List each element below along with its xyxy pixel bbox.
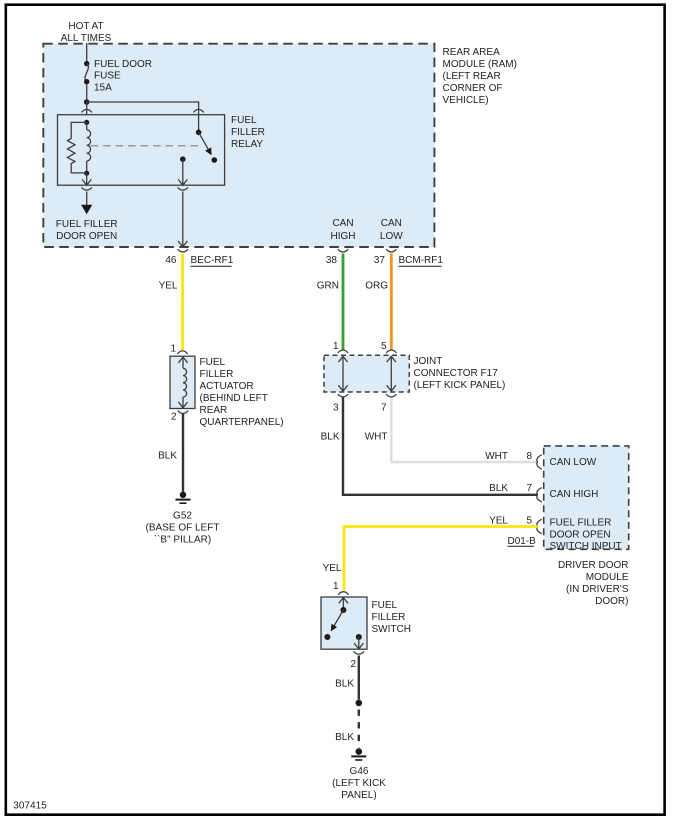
arrow into relay switch pin <box>194 115 203 120</box>
svg-text:ORG: ORG <box>365 281 388 292</box>
connector arc joint pin 7 <box>386 394 396 397</box>
svg-text:5: 5 <box>381 341 387 352</box>
svg-text:FUEL FILLER: FUEL FILLER <box>550 517 612 528</box>
svg-text:YEL: YEL <box>489 515 508 526</box>
svg-text:CAN: CAN <box>381 218 402 229</box>
junction splice <box>84 99 90 105</box>
svg-text:MODULE (RAM): MODULE (RAM) <box>443 59 517 70</box>
svg-text:FILLER: FILLER <box>372 612 406 623</box>
wire ORG CAN LOW to joint connector pin 5 <box>390 254 393 351</box>
connector brace DDM pin 5 <box>537 519 542 533</box>
svg-text:D01-B: D01-B <box>508 536 537 547</box>
ground G52 <box>176 492 191 504</box>
wire BLK joint pin 3 to DDM pin 7 <box>343 398 538 495</box>
wire junction to relay switch pin <box>87 102 199 115</box>
svg-text:ACTUATOR: ACTUATOR <box>200 381 254 392</box>
label: FUEL FILLER ACTUATOR (BEHIND LEFT REAR QUARTERPANEL) <box>200 357 284 428</box>
relay linkage dashed line <box>91 145 201 147</box>
svg-text:WHT: WHT <box>485 451 508 462</box>
connector label BCM-RF1 <box>399 255 444 266</box>
relay switch contacts <box>196 115 217 163</box>
wire junction to relay coil pin <box>86 102 88 115</box>
svg-text:15A: 15A <box>94 83 112 94</box>
connector arc RAM pin 38 <box>338 249 348 252</box>
connector arc switch pin 1 <box>338 592 348 595</box>
svg-text:8: 8 <box>526 451 532 462</box>
svg-text:FILLER: FILLER <box>231 127 265 138</box>
svg-text:307415: 307415 <box>13 800 47 811</box>
connector arc joint pin 1 <box>338 350 348 353</box>
wire BLK actuator to ground G52 <box>182 414 184 492</box>
svg-text:JOINT: JOINT <box>414 356 443 367</box>
ground G46 <box>351 748 366 760</box>
label: CAN LOW <box>380 218 403 242</box>
svg-text:5: 5 <box>526 515 532 526</box>
svg-text:ALL TIMES: ALL TIMES <box>61 33 112 44</box>
connector brace DDM pin 8 <box>537 455 542 469</box>
wire YEL relay output to actuator pin 1 <box>181 254 184 351</box>
svg-text:CAN HIGH: CAN HIGH <box>550 489 599 500</box>
svg-text:BLK: BLK <box>335 732 354 743</box>
svg-text:HOT AT: HOT AT <box>68 21 103 32</box>
svg-text:(BASE OF LEFT: (BASE OF LEFT <box>146 522 220 533</box>
node HOT AT ALL TIMES <box>61 21 112 44</box>
svg-text:MODULE: MODULE <box>586 572 629 583</box>
label: FUEL FILLER RELAY <box>231 115 265 150</box>
svg-text:FUEL: FUEL <box>200 357 226 368</box>
connector label BEC-RF1 <box>191 255 234 266</box>
svg-text:BLK: BLK <box>158 451 177 462</box>
svg-text:3: 3 <box>333 403 339 414</box>
resistor parallel with relay coil <box>67 122 86 172</box>
label: FUEL DOOR FUSE 15A <box>94 59 152 94</box>
svg-text:7: 7 <box>381 403 387 414</box>
connector arc relay switch pin <box>193 109 203 112</box>
svg-text:FUSE: FUSE <box>94 71 121 82</box>
svg-text:SWITCH: SWITCH <box>372 624 411 635</box>
wire battery feed to fuse <box>86 43 88 61</box>
wire fuse to junction splice <box>86 84 88 102</box>
svg-text:LOW: LOW <box>380 231 403 242</box>
svg-text:1: 1 <box>333 341 339 352</box>
svg-text:G52: G52 <box>173 510 192 521</box>
connector brace DDM pin 7 <box>537 488 542 502</box>
svg-text:37: 37 <box>374 255 386 266</box>
svg-text:GRN: GRN <box>317 281 339 292</box>
wire GRN CAN HIGH to joint connector pin 1 <box>342 254 345 351</box>
arrow into relay coil pin <box>82 115 91 120</box>
joint connector pass-through arrows pin 1-3 <box>338 356 347 391</box>
joint connector pass-through arrows pin 5-7 <box>387 356 396 391</box>
svg-text:FUEL FILLER: FUEL FILLER <box>56 219 118 230</box>
actuator internal arrows and coil <box>178 357 187 408</box>
label: FUEL FILLER DOOR OPEN <box>56 219 118 242</box>
label: REAR AREA MODULE (RAM) (LEFT REAR CORNER OF VEHICLE) <box>443 47 517 106</box>
wire WHT joint pin 7 to DDM pin 8 <box>391 398 538 463</box>
svg-text:BLK: BLK <box>489 483 508 494</box>
svg-text:46: 46 <box>165 255 177 266</box>
label: DRIVER DOOR MODULE (IN DRIVER'S DOOR) <box>558 560 629 607</box>
label: G46 (LEFT KICK PANEL) <box>332 766 386 801</box>
svg-text:RELAY: RELAY <box>231 139 263 150</box>
svg-text:DOOR OPEN: DOOR OPEN <box>550 529 611 540</box>
svg-text:VEHICLE): VEHICLE) <box>443 95 489 106</box>
svg-text:CONNECTOR F17: CONNECTOR F17 <box>414 368 499 379</box>
svg-text:FUEL: FUEL <box>372 600 398 611</box>
connector label D01-B <box>508 536 537 547</box>
switch internal contacts <box>324 598 363 649</box>
label: CAN HIGH <box>331 218 356 242</box>
connector arc joint pin 5 <box>386 350 396 353</box>
svg-text:7: 7 <box>526 483 532 494</box>
connector arc switch pin 2 <box>354 651 364 654</box>
label: JOINT CONNECTOR F17 (LEFT KICK PANEL) <box>414 356 506 391</box>
svg-text:HIGH: HIGH <box>331 231 356 242</box>
joint connector F17 dashed box <box>324 355 409 392</box>
connector arc actuator pin 1 <box>177 351 187 354</box>
connector arc RAM pin 37 <box>386 249 396 252</box>
svg-text:REAR: REAR <box>200 405 228 416</box>
splice in BLK ground wire <box>356 700 363 707</box>
svg-text:REAR AREA: REAR AREA <box>443 47 501 58</box>
driver door module dashed box <box>544 446 629 549</box>
svg-text:CAN: CAN <box>332 218 353 229</box>
svg-text:FILLER: FILLER <box>200 369 234 380</box>
svg-text:FUEL DOOR: FUEL DOOR <box>94 59 152 70</box>
svg-text:CORNER OF: CORNER OF <box>443 83 503 94</box>
connector arc joint pin 3 <box>338 394 348 397</box>
svg-text:DOOR): DOOR) <box>595 596 628 607</box>
node FUEL FILLER DOOR OPEN (off-page arrow) <box>81 205 92 215</box>
svg-text:DOOR OPEN: DOOR OPEN <box>56 231 117 242</box>
svg-text:1: 1 <box>170 344 176 355</box>
svg-text:38: 38 <box>326 255 338 266</box>
label: G52 (BASE OF LEFT ``B" PILLAR) <box>146 510 220 545</box>
svg-text:2: 2 <box>171 411 177 422</box>
connector arc relay coil pin <box>82 109 92 112</box>
svg-text:G46: G46 <box>350 766 369 777</box>
svg-text:BEC-RF1: BEC-RF1 <box>191 255 234 266</box>
relay coil <box>84 120 90 176</box>
svg-text:(IN DRIVER'S: (IN DRIVER'S <box>566 584 629 595</box>
wire BLK switch to splice <box>358 656 360 700</box>
svg-text:BLK: BLK <box>321 432 340 443</box>
svg-text:2: 2 <box>350 659 356 670</box>
svg-text:SWITCH INPUT: SWITCH INPUT <box>550 541 622 552</box>
svg-text:1: 1 <box>333 581 339 592</box>
svg-text:YEL: YEL <box>159 281 178 292</box>
svg-text:DRIVER DOOR: DRIVER DOOR <box>558 560 629 571</box>
svg-text:QUARTERPANEL): QUARTERPANEL) <box>200 417 284 428</box>
svg-text:(LEFT KICK PANEL): (LEFT KICK PANEL) <box>414 380 506 391</box>
fuse FUEL DOOR FUSE 15A <box>84 61 89 85</box>
svg-text:FUEL: FUEL <box>231 115 257 126</box>
svg-text:PANEL): PANEL) <box>341 790 376 801</box>
wire BLK dashed to ground G46 <box>358 710 360 748</box>
svg-text:BCM-RF1: BCM-RF1 <box>399 255 444 266</box>
module RAM (Rear Area Module) dashed box <box>43 44 434 247</box>
svg-text:(LEFT KICK: (LEFT KICK <box>332 778 386 789</box>
wire relay switch output to RAM pin 46 <box>178 156 188 252</box>
svg-text:(BEHIND LEFT: (BEHIND LEFT <box>200 393 268 404</box>
label: FUEL FILLER SWITCH <box>372 600 411 635</box>
svg-text:(LEFT REAR: (LEFT REAR <box>443 71 501 82</box>
label: FUEL FILLER DOOR OPEN SWITCH INPUT <box>550 517 622 552</box>
svg-text:WHT: WHT <box>365 432 388 443</box>
svg-text:CAN LOW: CAN LOW <box>550 457 597 468</box>
switch FUEL FILLER SWITCH box <box>321 597 367 649</box>
wire relay coil to fuel filler door open arrow <box>82 173 92 205</box>
relay box FUEL FILLER RELAY <box>58 115 225 186</box>
connector arc actuator pin 2 <box>178 411 188 414</box>
svg-text:BLK: BLK <box>335 679 354 690</box>
svg-text:``B" PILLAR): ``B" PILLAR) <box>154 533 211 545</box>
wire YEL DDM pin 5 to fuel filler switch pin 1 <box>344 527 538 591</box>
actuator FUEL FILLER ACTUATOR box <box>170 356 195 408</box>
svg-text:YEL: YEL <box>323 563 342 574</box>
